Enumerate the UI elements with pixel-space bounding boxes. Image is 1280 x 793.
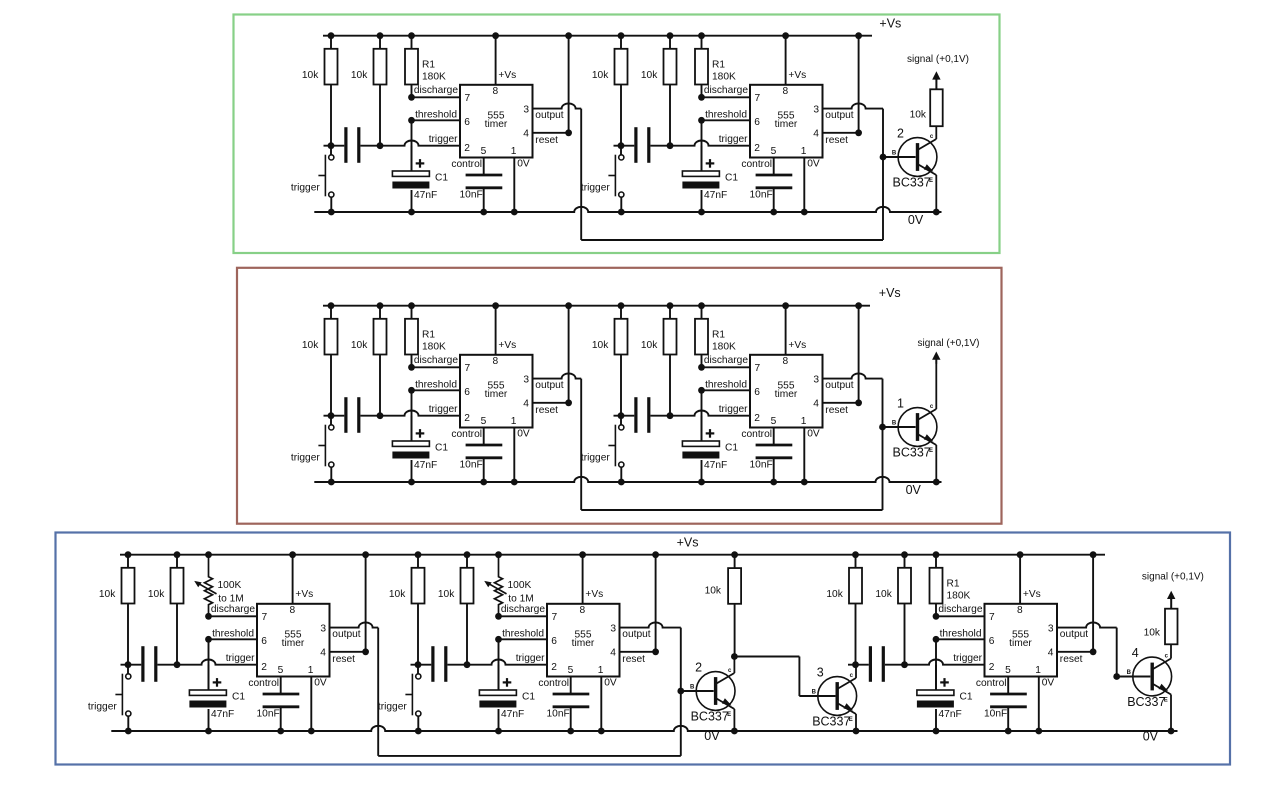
label 47nF green-1 (414, 190, 437, 201)
label pin B blue-q2 (690, 684, 695, 690)
wire trigger line green-2 (614, 140, 751, 149)
svg-text:10nF: 10nF (547, 709, 570, 720)
svg-text:B: B (892, 420, 897, 426)
svg-text:10k: 10k (705, 586, 722, 597)
label trigger (pin2) blue-2 (516, 653, 545, 664)
wire pin1 to 0V blue-2 (598, 677, 605, 735)
label R1 180K red-1 (422, 330, 446, 353)
label pin E red (929, 448, 933, 454)
wire +Vs rail (blue) (120, 554, 1105, 556)
svg-text:8: 8 (579, 605, 585, 616)
svg-text:C1: C1 (725, 443, 738, 454)
svg-text:4: 4 (523, 129, 529, 140)
label Q2 number green (897, 127, 904, 141)
label 10k (A) red-2 (592, 340, 609, 351)
wire pin3 output red-1 (533, 373, 582, 378)
label 10k (B) blue-1 (148, 589, 165, 600)
wire reset pull-up blue-1 (330, 551, 370, 655)
svg-text:3: 3 (817, 666, 824, 680)
svg-text:reset: reset (535, 135, 558, 146)
svg-text:trigger: trigger (291, 183, 320, 194)
svg-text:C1: C1 (960, 692, 973, 703)
svg-text:timer: timer (775, 119, 798, 130)
wire reset pull-up blue-2 (620, 551, 659, 655)
node Q2 base junction (green) (880, 154, 887, 161)
capacitor 10nF control blue-2 (553, 677, 590, 735)
label Q3 number blue-q3 (817, 666, 824, 680)
svg-text:10nF: 10nF (750, 190, 773, 201)
red box border (237, 268, 1002, 524)
label BC337 green (893, 176, 931, 190)
svg-text:discharge: discharge (414, 85, 459, 96)
svg-text:0V: 0V (604, 677, 617, 688)
svg-text:discharge: discharge (704, 85, 749, 96)
svg-text:4: 4 (523, 399, 529, 410)
svg-text:signal (+0,1V): signal (+0,1V) (1142, 572, 1204, 583)
svg-text:0V: 0V (517, 428, 530, 439)
resistor 10k Q2 collector (blue) (728, 551, 741, 656)
label control green-2 (741, 159, 772, 170)
svg-text:discharge: discharge (938, 604, 983, 615)
svg-text:6: 6 (464, 387, 470, 398)
op-amp/IC 555 timer blue-3 (985, 604, 1058, 677)
svg-text:3: 3 (320, 623, 326, 634)
svg-text:1: 1 (1035, 665, 1041, 676)
svg-text:+Vs: +Vs (498, 340, 516, 351)
label +Vs (green) (879, 16, 901, 30)
svg-text:timer: timer (1009, 638, 1032, 649)
switch trigger push-button blue-2 (405, 665, 421, 735)
label output green-2 (825, 110, 853, 121)
resistor R1 180K red-2 (695, 302, 708, 367)
label 0V (red) (906, 483, 922, 497)
svg-text:C1: C1 (725, 173, 738, 184)
wire pin7 discharge blue-3 (933, 613, 985, 620)
svg-text:10nF: 10nF (984, 709, 1007, 720)
label 10k (A) green-1 (302, 70, 319, 81)
wire reset pull-up green-2 (823, 32, 862, 136)
wire pin8 +Vs blue-1 (289, 551, 296, 604)
label 10k (B) red-1 (351, 340, 368, 351)
wire pin8 +Vs green-2 (782, 32, 789, 85)
svg-text:E: E (849, 717, 853, 723)
svg-text:180K: 180K (947, 591, 971, 602)
svg-text:10k: 10k (826, 589, 843, 600)
label BC337 blue-q3 (812, 715, 850, 729)
wire 0V rail (blue) (111, 726, 1177, 731)
label 0V right (blue) (1143, 730, 1159, 744)
capacitor C1 47nF red-2 (682, 416, 719, 486)
wire pin7 discharge green-2 (698, 94, 750, 101)
svg-text:47nF: 47nF (501, 709, 524, 720)
svg-text:R1: R1 (712, 330, 725, 341)
svg-text:+Vs: +Vs (677, 536, 699, 550)
label control green-1 (451, 159, 482, 170)
svg-text:BC337: BC337 (691, 710, 729, 724)
svg-text:control: control (741, 429, 772, 440)
label pin C blue-q2 (728, 668, 732, 674)
wire pin6 threshold green-2 (698, 117, 750, 124)
wire trigger line blue-2 (411, 660, 548, 669)
capacitor C1 47nF green-1 (392, 146, 429, 216)
resistor 10k (A) green-1 (325, 32, 338, 145)
label R1 180K green-2 (712, 60, 736, 83)
svg-text:10k: 10k (592, 70, 609, 81)
svg-text:6: 6 (989, 636, 995, 647)
svg-text:0V: 0V (704, 729, 720, 743)
switch trigger push-button red-1 (318, 416, 334, 486)
label 100K to 1M blue-2 (508, 580, 534, 605)
svg-text:R1: R1 (422, 330, 435, 341)
svg-text:reset: reset (825, 135, 848, 146)
label control red-1 (451, 429, 482, 440)
svg-text:10k: 10k (99, 589, 116, 600)
label 10nF red-2 (750, 460, 773, 471)
label threshold blue-1 (212, 629, 254, 640)
label 10nF green-1 (460, 190, 483, 201)
transistor Q2 BC337 green (883, 126, 940, 215)
variable resistor 100K-1M blue-2 (484, 551, 506, 616)
svg-text:5: 5 (481, 416, 487, 427)
label control red-2 (741, 429, 772, 440)
svg-text:47nF: 47nF (704, 190, 727, 201)
wire threshold to C1 red-2 (701, 390, 703, 441)
label +Vs pin8 blue-1 (295, 589, 313, 600)
svg-text:7: 7 (989, 612, 995, 623)
label 0V pin1 green-1 (517, 158, 530, 169)
svg-text:3: 3 (523, 374, 529, 385)
label threshold blue-3 (940, 629, 982, 640)
svg-text:100K: 100K (508, 580, 532, 591)
wire pin7 discharge green-1 (408, 94, 460, 101)
label 10k (A) blue-2 (389, 589, 406, 600)
wire pin1 to 0V red-2 (801, 428, 808, 486)
svg-text:5: 5 (771, 416, 777, 427)
wire trigger line red-2 (614, 411, 751, 420)
wire pin6 threshold green-1 (408, 117, 460, 124)
svg-text:10nF: 10nF (460, 190, 483, 201)
label reset green-1 (535, 135, 558, 146)
svg-text:to 1M: to 1M (218, 593, 243, 604)
capacitor coupling blue-2 (433, 646, 446, 682)
wire pin1 to 0V green-2 (801, 158, 808, 216)
label BC337 blue-q2 (691, 710, 729, 724)
svg-text:3: 3 (813, 104, 819, 115)
label R1 180K red-2 (712, 330, 736, 353)
svg-text:10k: 10k (641, 340, 658, 351)
transistor Q2 BC337 blue-q2 (681, 657, 738, 735)
svg-text:5: 5 (278, 665, 284, 676)
capacitor C1 47nF green-2 (682, 146, 719, 216)
svg-text:trigger: trigger (719, 404, 748, 415)
svg-text:2: 2 (261, 662, 267, 673)
svg-text:signal (+0,1V): signal (+0,1V) (918, 338, 980, 349)
label 47nF red-2 (704, 460, 727, 471)
svg-text:+Vs: +Vs (1023, 589, 1041, 600)
svg-text:discharge: discharge (211, 604, 256, 615)
svg-text:control: control (538, 678, 569, 689)
label discharge blue-1 (211, 604, 256, 615)
svg-text:47nF: 47nF (704, 460, 727, 471)
label pin B green (892, 150, 897, 156)
svg-text:signal (+0,1V): signal (+0,1V) (907, 54, 969, 65)
variable resistor 100K-1M blue-1 (194, 551, 216, 616)
resistor 10k (B) green-1 (374, 32, 387, 145)
svg-text:+Vs: +Vs (879, 286, 901, 300)
svg-text:1: 1 (801, 146, 807, 157)
label BC337 red (893, 446, 931, 460)
label 10k (B) green-1 (351, 70, 368, 81)
label 10k (A) red-1 (302, 340, 319, 351)
svg-text:2: 2 (464, 143, 470, 154)
label +Vs pin8 blue-2 (585, 589, 603, 600)
signal arrow red (932, 352, 940, 364)
label output blue-2 (622, 629, 650, 640)
svg-text:47nF: 47nF (414, 190, 437, 201)
label 0V (green) (908, 213, 924, 227)
svg-text:reset: reset (1060, 654, 1083, 665)
svg-text:47nF: 47nF (414, 460, 437, 471)
capacitor coupling red-1 (346, 397, 359, 433)
svg-text:+Vs: +Vs (498, 70, 516, 81)
label pin E blue-q4 (1164, 697, 1168, 703)
label C1 green-1 (435, 173, 448, 184)
wire threshold to C1 green-1 (411, 120, 413, 171)
resistor 10k (A) blue-3 (849, 551, 862, 664)
label 10nF blue-3 (984, 709, 1007, 720)
svg-text:10k: 10k (389, 589, 406, 600)
wire c3 output to Q4 base (blue) (1116, 628, 1118, 677)
label 47nF green-2 (704, 190, 727, 201)
svg-text:trigger: trigger (953, 653, 982, 664)
svg-text:threshold: threshold (502, 629, 544, 640)
node Q2 base junction (blue) (677, 688, 684, 695)
label pin B blue-q4 (1127, 670, 1132, 676)
wire pin8 +Vs blue-2 (579, 551, 586, 604)
label control blue-3 (976, 678, 1007, 689)
label threshold green-1 (415, 110, 457, 121)
svg-text:discharge: discharge (501, 604, 546, 615)
svg-text:5: 5 (568, 665, 574, 676)
svg-text:4: 4 (813, 399, 819, 410)
svg-text:10k: 10k (910, 110, 927, 121)
label + polarity red-1 (416, 429, 425, 438)
label +Vs (red) (879, 286, 901, 300)
label 0V pin1 blue-1 (314, 677, 327, 688)
label trigger switch green-2 (581, 183, 610, 194)
svg-text:6: 6 (464, 117, 470, 128)
svg-text:7: 7 (552, 612, 558, 623)
label + polarity blue-1 (213, 678, 222, 687)
svg-text:BC337: BC337 (812, 715, 850, 729)
label 47nF blue-2 (501, 709, 524, 720)
capacitor C1 47nF red-1 (392, 416, 429, 486)
label 47nF blue-3 (939, 709, 962, 720)
label pin C green (930, 134, 934, 140)
transistor Q4 BC337 blue-q4 (1117, 644, 1175, 734)
svg-text:2: 2 (464, 413, 470, 424)
svg-text:+Vs: +Vs (788, 70, 806, 81)
svg-text:threshold: threshold (212, 629, 254, 640)
label 10k (B) blue-2 (438, 589, 455, 600)
label C1 red-1 (435, 443, 448, 454)
capacitor 10nF control blue-3 (990, 677, 1027, 735)
op-amp/IC 555 timer red-1 (460, 355, 533, 428)
svg-text:8: 8 (289, 605, 295, 616)
svg-text:7: 7 (755, 93, 761, 104)
svg-text:2: 2 (754, 143, 760, 154)
svg-text:0V: 0V (807, 158, 820, 169)
svg-text:E: E (1164, 697, 1168, 703)
resistor R1 180K green-2 (695, 32, 708, 97)
svg-text:3: 3 (523, 104, 529, 115)
label reset blue-3 (1060, 654, 1083, 665)
node Q1 base junction (red) (879, 424, 886, 431)
label discharge green-2 (704, 85, 749, 96)
label 10k (B) green-2 (641, 70, 658, 81)
svg-text:0V: 0V (1143, 730, 1159, 744)
label +Vs pin8 blue-3 (1023, 589, 1041, 600)
svg-text:1: 1 (598, 665, 604, 676)
wire threshold to C1 blue-3 (935, 639, 937, 690)
label trigger (pin2) red-2 (719, 404, 748, 415)
wire 0V rail (green) (314, 207, 941, 212)
label output blue-3 (1060, 629, 1088, 640)
svg-text:E: E (727, 712, 731, 718)
wire threshold to C1 red-1 (411, 390, 413, 441)
label signal (+0,1V) blue (1142, 572, 1204, 583)
wire threshold to C1 blue-1 (208, 639, 210, 690)
wire pin3 output green-2 (823, 103, 884, 108)
svg-text:4: 4 (1048, 648, 1054, 659)
svg-text:10k: 10k (351, 70, 368, 81)
svg-text:0V: 0V (908, 213, 924, 227)
wire pin3 output blue-3 (1057, 622, 1117, 627)
label signal (+0,1V) red (918, 338, 980, 349)
label trigger switch red-2 (581, 453, 610, 464)
switch trigger push-button green-2 (608, 146, 624, 216)
label reset red-2 (825, 405, 848, 416)
wire pin3 output red-2 (823, 373, 883, 378)
svg-text:0V: 0V (906, 483, 922, 497)
resistor R1 180K red-1 (405, 302, 418, 367)
svg-text:output: output (1060, 629, 1088, 640)
svg-text:R1: R1 (712, 60, 725, 71)
svg-text:output: output (535, 380, 563, 391)
label discharge blue-2 (501, 604, 546, 615)
svg-text:threshold: threshold (705, 110, 747, 121)
svg-text:discharge: discharge (704, 355, 749, 366)
label discharge red-2 (704, 355, 749, 366)
svg-text:6: 6 (754, 117, 760, 128)
capacitor coupling green-2 (636, 127, 649, 163)
wire pin7 discharge blue-1 (205, 613, 257, 620)
wire trigger line green-1 (324, 140, 461, 149)
svg-text:timer: timer (485, 389, 508, 400)
label 0V pin1 red-2 (807, 428, 820, 439)
label discharge blue-3 (938, 604, 983, 615)
node Q2 collector junction (blue) (731, 653, 738, 660)
label Q1 number red (897, 397, 904, 411)
switch trigger push-button green-1 (318, 146, 334, 216)
label +Vs pin8 green-2 (788, 70, 806, 81)
svg-text:timer: timer (572, 638, 595, 649)
svg-text:8: 8 (1017, 605, 1023, 616)
label trigger switch green-1 (291, 183, 320, 194)
svg-text:R1: R1 (422, 60, 435, 71)
svg-text:control: control (976, 678, 1007, 689)
label trigger (pin2) green-1 (429, 134, 458, 145)
svg-text:+Vs: +Vs (585, 589, 603, 600)
wire trigger line red-1 (324, 411, 461, 420)
svg-text:6: 6 (551, 636, 557, 647)
wire reset pull-up red-1 (533, 302, 572, 406)
svg-text:to 1M: to 1M (508, 593, 533, 604)
wire pin1 to 0V green-1 (511, 158, 518, 216)
label 10nF blue-2 (547, 709, 570, 720)
svg-text:trigger: trigger (516, 653, 545, 664)
svg-text:threshold: threshold (415, 380, 457, 391)
svg-text:3: 3 (1048, 623, 1054, 634)
signal arrow blue (1167, 591, 1175, 600)
resistor 10k (A) green-2 (615, 32, 628, 145)
svg-text:8: 8 (782, 86, 788, 97)
svg-text:threshold: threshold (705, 380, 747, 391)
svg-text:10k: 10k (1144, 628, 1161, 639)
svg-text:47nF: 47nF (211, 709, 234, 720)
svg-text:4: 4 (320, 648, 326, 659)
label 0V pin1 red-1 (517, 428, 530, 439)
svg-text:2: 2 (989, 662, 995, 673)
label 10k Q4 (blue) (1144, 628, 1161, 639)
label +Vs (blue) (677, 536, 699, 550)
svg-text:trigger: trigger (378, 702, 407, 713)
wire +Vs rail (red) (323, 305, 870, 307)
wire pin6 threshold red-1 (408, 387, 460, 394)
svg-text:180K: 180K (422, 342, 446, 353)
wire pin6 threshold blue-1 (205, 636, 257, 643)
wire pin6 threshold red-2 (698, 387, 750, 394)
wire pin6 threshold blue-3 (933, 636, 985, 643)
label C1 blue-1 (232, 692, 245, 703)
label threshold blue-2 (502, 629, 544, 640)
svg-text:4: 4 (1132, 646, 1139, 660)
label R1 180K blue-3 (947, 579, 971, 602)
svg-text:0V: 0V (314, 677, 327, 688)
label 100K to 1M blue-1 (218, 580, 244, 605)
svg-text:10nF: 10nF (750, 460, 773, 471)
label reset green-2 (825, 135, 848, 146)
wire pin8 +Vs red-2 (782, 302, 789, 354)
svg-text:10nF: 10nF (460, 460, 483, 471)
svg-text:reset: reset (535, 405, 558, 416)
label output blue-1 (332, 629, 360, 640)
svg-text:C1: C1 (435, 443, 448, 454)
svg-text:10k: 10k (641, 70, 658, 81)
svg-text:output: output (825, 380, 853, 391)
label pin B red (892, 420, 897, 426)
svg-text:3: 3 (610, 623, 616, 634)
capacitor coupling blue-3 (870, 646, 883, 682)
svg-text:2: 2 (551, 662, 557, 673)
svg-text:10k: 10k (875, 589, 892, 600)
label threshold green-2 (705, 110, 747, 121)
label 10nF green-2 (750, 190, 773, 201)
label threshold red-2 (705, 380, 747, 391)
wire +Vs rail (green) (323, 35, 872, 37)
green box border (234, 15, 1000, 254)
label 10k (A) blue-1 (99, 589, 116, 600)
